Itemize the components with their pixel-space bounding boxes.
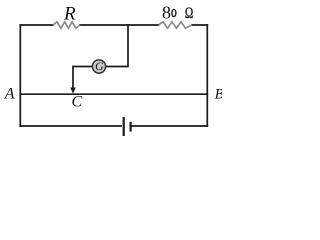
svg-text:R: R (63, 4, 76, 25)
svg-text:B: B (215, 87, 222, 103)
svg-text:8: 8 (162, 2, 171, 22)
svg-text:A: A (4, 86, 15, 103)
svg-text:Ω: Ω (185, 5, 193, 22)
svg-text:C: C (72, 94, 83, 111)
svg-text:G: G (95, 59, 104, 73)
